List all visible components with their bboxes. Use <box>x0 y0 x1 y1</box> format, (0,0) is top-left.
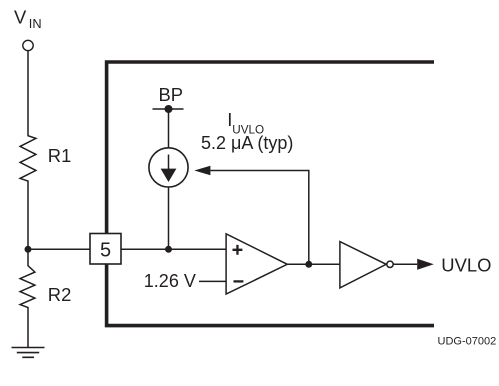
svg-text:5: 5 <box>100 240 111 262</box>
svg-text:UDG-07002: UDG-07002 <box>438 336 497 348</box>
svg-text:UVLO: UVLO <box>441 254 491 275</box>
svg-text:5.2 μA (typ): 5.2 μA (typ) <box>201 133 293 153</box>
svg-text:1.26 V: 1.26 V <box>144 271 196 291</box>
svg-text:BP: BP <box>159 84 184 105</box>
svg-text:V: V <box>14 6 27 27</box>
svg-text:R2: R2 <box>48 284 72 305</box>
svg-text:R1: R1 <box>48 145 72 166</box>
svg-text:IN: IN <box>29 16 42 31</box>
